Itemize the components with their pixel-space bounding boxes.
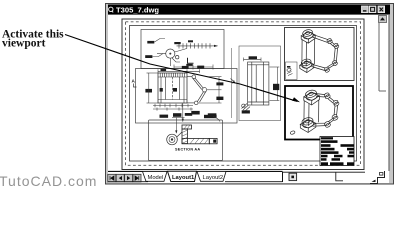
svg-text:T305_7.dwg: T305_7.dwg xyxy=(116,5,159,14)
hscroll track step xyxy=(336,172,343,181)
VP1 dimension comb xyxy=(177,43,213,48)
viewport VP3 middle xyxy=(239,46,281,121)
VP1 arrow at right xyxy=(212,45,218,47)
VP4 corner mini detail xyxy=(286,62,298,80)
viewport VP2 main xyxy=(136,69,238,124)
VP2 front view labels xyxy=(145,88,177,93)
viewport VP1 top-left xyxy=(141,30,224,69)
bottom boss xyxy=(301,117,314,129)
right pivot 2 xyxy=(333,43,339,49)
section label xyxy=(175,147,200,151)
VP1 pulley circle xyxy=(166,49,179,59)
VP2 section label A left xyxy=(132,79,137,88)
section hatched L-profile xyxy=(182,125,217,144)
title block xyxy=(320,137,354,166)
right pivot 3 xyxy=(332,60,338,66)
svg-text:Layout2: Layout2 xyxy=(203,175,224,181)
VP2 section label A right xyxy=(231,79,237,85)
hscroll divider xyxy=(282,172,284,182)
right pivot 4 xyxy=(324,66,330,72)
top boss pad xyxy=(301,32,315,40)
watermark TutoCAD.com xyxy=(0,173,97,189)
VP1 link lines xyxy=(157,49,187,67)
VP2 bottom dimension combs xyxy=(153,104,193,111)
bottom boss pad xyxy=(300,120,316,128)
right pivot 1 xyxy=(324,92,331,99)
svg-text:TutoCAD.com: TutoCAD.com xyxy=(0,173,97,189)
VP2 top dimension row A xyxy=(174,65,213,70)
VP1 label BLEP xyxy=(147,39,165,44)
svg-text:SECTION AA: SECTION AA xyxy=(175,147,200,151)
tab Layout1 active xyxy=(168,171,197,181)
svg-text:Layout1: Layout1 xyxy=(172,175,195,181)
annotation text "Activate this viewport" xyxy=(2,29,64,50)
VP2 front view xyxy=(158,73,187,103)
VP2 top dimension row B xyxy=(158,69,200,73)
small bottom ellipse xyxy=(290,130,296,134)
connecting plate xyxy=(304,100,319,126)
scrollbar track edge xyxy=(379,23,386,91)
right pivot 3 xyxy=(331,114,338,121)
hscroll thumb button xyxy=(289,173,297,180)
bottom boss pad xyxy=(300,61,314,69)
right pivot 4 xyxy=(324,121,331,128)
title bar xyxy=(108,5,390,15)
tab bar xyxy=(108,171,389,183)
connecting plate xyxy=(302,39,315,67)
restore button xyxy=(369,6,376,13)
top boss pad xyxy=(304,92,320,100)
page background xyxy=(0,0,400,189)
titlebar buttons xyxy=(362,6,385,13)
title bar icon xyxy=(109,7,113,11)
tab nav buttons xyxy=(108,174,141,182)
VP1 label 0.70 xyxy=(145,54,163,59)
paper sheet xyxy=(122,19,364,170)
section hub circle xyxy=(167,132,182,145)
VP3 bottom-left detail xyxy=(242,104,251,112)
tab bar bottom line xyxy=(108,181,283,183)
link bars xyxy=(316,94,325,97)
viewport VP4 top-right xyxy=(285,28,355,81)
section detail box xyxy=(149,120,223,161)
link bars xyxy=(312,34,328,42)
section leader curve xyxy=(213,117,220,122)
VP2 section cut line xyxy=(231,48,233,118)
leader line to viewport xyxy=(65,35,300,103)
tab Model xyxy=(143,172,168,182)
VP1 angle bracket detail xyxy=(186,58,193,66)
VP2 bottom dim labels xyxy=(173,111,217,118)
VP4 iso assembly xyxy=(300,29,340,73)
right pivot 2 xyxy=(332,100,339,107)
svg-text:Model: Model xyxy=(148,175,164,181)
close button xyxy=(378,6,385,13)
vertical scrollbar up arrow xyxy=(379,15,390,171)
drawing frame xyxy=(130,26,357,162)
top boss xyxy=(305,89,318,101)
corner resize grip xyxy=(370,171,385,184)
section top dim labels xyxy=(160,113,217,118)
VP2 left dim line xyxy=(147,73,159,103)
VP1 comb labels xyxy=(174,40,193,44)
minimize button xyxy=(362,6,369,13)
bottom boss xyxy=(301,58,313,69)
title block text bars xyxy=(321,137,354,165)
svg-text:viewport: viewport xyxy=(2,38,46,50)
VP2 centerline into section xyxy=(182,103,184,122)
window frame xyxy=(105,3,394,185)
section top dim xyxy=(172,118,185,134)
window inner right edge xyxy=(388,15,390,171)
viewport VP5 bottom-right thick active xyxy=(285,86,353,140)
VP2 right dim line xyxy=(198,77,222,103)
dashed plot margin xyxy=(126,22,361,166)
top boss xyxy=(302,29,314,40)
VP3 part side view xyxy=(248,62,269,105)
VP5 iso assembly xyxy=(290,89,340,135)
right pivot 1 xyxy=(326,38,332,44)
tab Layout2 xyxy=(197,172,226,182)
VP3 top dimension xyxy=(244,56,262,61)
VP3 right dim line xyxy=(270,67,280,101)
VP2 linkage side view xyxy=(187,75,207,105)
